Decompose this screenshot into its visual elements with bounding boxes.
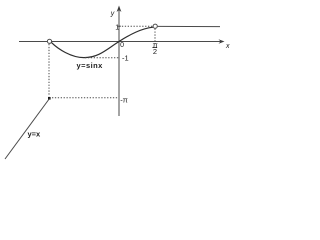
horizontal ray y=1 for x>pi/2 [158,25,220,27]
svg-text:1: 1 [115,24,119,31]
dashed horizontal from dot to y-axis [52,97,119,99]
svg-text:-1: -1 [122,53,129,62]
open circle at (-pi, 0) [47,39,51,43]
x-axis [19,41,223,43]
svg-text:x: x [225,43,230,50]
dashed line y=1 from axis to open circle [119,25,153,27]
line y=x for x<=-pi [5,99,50,160]
svg-text:y: y [110,10,115,17]
open circle at (pi/2, 1) [153,24,157,28]
curve y=sinx from -pi to pi/2 [52,27,154,57]
y-axis [118,8,120,116]
x-axis arrowhead [219,39,225,44]
filled dot at (-pi, -pi) [48,97,51,100]
dashed line y=-1 from minimum to y-axis [85,57,119,59]
tick at y=1 [117,25,121,27]
svg-text:0: 0 [120,42,124,49]
dashed vertical from open circle to x-axis at pi/2 [154,29,156,44]
dashed vertical from (-pi,0) down to (-pi,-pi) [48,44,50,97]
svg-text:-π: -π [120,95,128,104]
svg-text:2: 2 [153,47,157,56]
svg-text:y=sinx: y=sinx [77,61,104,70]
label pi/2 fraction [152,40,157,56]
y-axis arrowhead [117,6,122,13]
svg-text:y=x: y=x [28,130,42,139]
